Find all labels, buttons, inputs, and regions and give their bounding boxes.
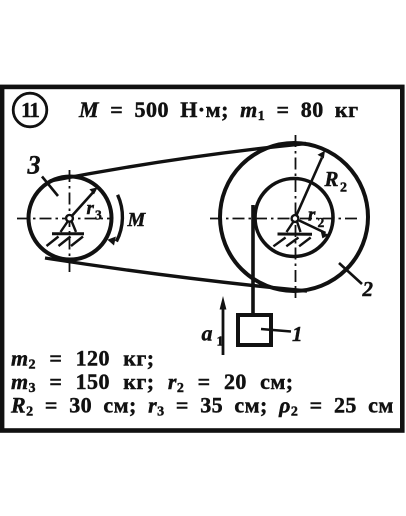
svg-text:2: 2	[362, 277, 374, 301]
svg-text:R: R	[324, 167, 339, 191]
svg-text:11: 11	[21, 98, 39, 122]
svg-text:r: r	[308, 205, 316, 226]
svg-text:3: 3	[27, 151, 41, 180]
svg-text:3: 3	[95, 208, 102, 223]
svg-text:2: 2	[340, 181, 347, 196]
svg-text:M = 500 Н·м; m1 = 80 кг: M = 500 Н·м; m1 = 80 кг	[78, 97, 359, 124]
svg-text:r: r	[87, 198, 95, 219]
svg-text:R2 = 30 см; r3 = 35 см; ρ2 = 2: R2 = 30 см; r3 = 35 см; ρ2 = 25 см	[10, 393, 394, 420]
svg-text:1: 1	[292, 322, 303, 346]
svg-text:2: 2	[318, 215, 325, 230]
svg-text:1: 1	[217, 335, 224, 350]
svg-text:a: a	[202, 321, 213, 346]
svg-text:M: M	[127, 209, 147, 231]
